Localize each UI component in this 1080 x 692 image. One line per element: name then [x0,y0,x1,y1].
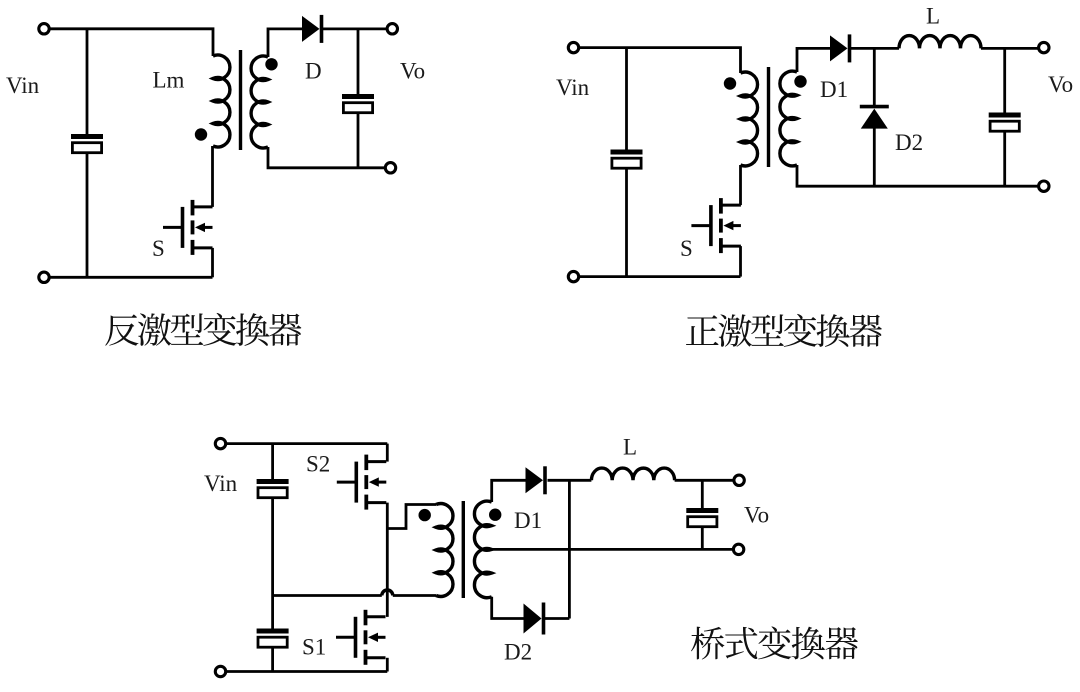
svg-text:D1: D1 [820,77,848,102]
wire input-cap branch lower [86,154,89,278]
wire output-cap branch upper flyback [357,29,360,95]
wire secondary bottom rail flyback [268,147,391,168]
diode D2 forward [860,107,889,129]
polarity dot primary T2 [724,77,736,89]
mosfet S flyback [163,200,213,255]
mosfet S2 [337,455,387,510]
wire switch node to primary top [387,505,436,529]
svg-text:S: S [680,236,693,261]
wire bottom rail bridge [221,670,388,673]
wire secondary bottom rail forward [797,165,1044,186]
transformer T1 primary winding Lm [213,55,230,147]
wire secondary bottom to D2 bridge [492,597,524,619]
svg-text:D: D [305,59,322,84]
wire output-cap branch upper forward [1003,48,1006,113]
wire middle bus left [273,594,382,597]
wire bottom rail flyback [44,276,213,279]
wire D2 branch upper [873,48,876,105]
svg-text:L: L [926,4,940,29]
svg-text:D1: D1 [514,508,542,533]
transformer T2 primary winding [741,72,758,166]
inductor L forward [899,36,981,49]
caption bridge converter [691,626,858,659]
svg-text:S1: S1 [302,635,326,660]
terminal output minus forward [1039,181,1049,191]
wire D2 cathode to join [544,617,570,620]
wire input-cap branch upper bridge [271,444,274,480]
polarity dot secondary T3 [489,509,501,521]
wire output-cap branch lower forward [1003,131,1006,186]
wire top rail bridge [221,442,388,445]
transformer T3 core [462,501,465,598]
wire input-cap branch upper forward [625,48,628,151]
wire D1 cathode to L [850,47,900,50]
capacitor C1 bridge [257,629,289,648]
capacitor Co forward [989,113,1021,132]
wire cap midpoint bridge [271,498,274,630]
svg-text:D2: D2 [895,130,923,155]
terminal input plus flyback [39,24,49,34]
wire input-cap branch lower forward [625,169,628,277]
polarity dot primary T3 [419,509,431,521]
svg-text:Vo: Vo [400,59,425,84]
wire middle bus hop [382,590,393,596]
svg-text:S2: S2 [306,452,330,477]
svg-text:S: S [152,236,165,261]
terminal output plus bridge [734,475,744,485]
capacitor Cin flyback [71,134,103,153]
wire source of S forward [739,246,742,277]
wire top rail flyback [44,29,213,56]
wire D2 branch lower [873,128,876,186]
polarity dot secondary T2 [794,75,806,87]
transformer T2 secondary winding [780,71,797,166]
terminal input plus forward [568,42,578,52]
transformer T1 core [239,50,242,150]
wire switch node vertical [386,503,389,617]
svg-text:Vo: Vo [1048,72,1073,97]
wire center tap rail [492,548,739,551]
mosfet S1 [336,610,386,665]
capacitor Co flyback [342,94,374,113]
wire D1 cathode to L bridge [548,479,592,482]
svg-text:Lm: Lm [153,68,185,93]
diode D [302,15,322,43]
terminal output minus flyback [385,163,395,173]
wire middle bus right [393,594,436,597]
terminal input minus flyback [39,272,49,282]
terminal output plus flyback [387,24,397,34]
polarity dot primary T1 [195,128,207,140]
transformer T3 secondary winding [474,501,491,597]
caption flyback converter [105,313,301,346]
wire secondary top to D1 bridge [492,480,526,502]
wire drain of S forward [739,165,742,205]
transformer T3 primary winding [436,504,453,597]
wire top rail forward [574,48,741,73]
wire source of S [211,248,214,277]
mosfet S forward [691,198,741,253]
terminal output plus forward [1039,42,1049,52]
wire secondary top to diode D [268,29,302,57]
wire S1 source vertical [386,658,389,672]
terminal output minus bridge [733,544,743,554]
capacitor C2 bridge [257,479,289,498]
svg-text:D2: D2 [504,640,532,665]
wire output-cap branch lower flyback [357,113,360,168]
wire L to output terminal forward [981,47,1044,50]
wire diode join vertical [568,480,571,618]
terminal input plus bridge [215,438,225,448]
diode D1 forward [830,34,850,62]
transformer T1 secondary winding [251,56,268,148]
svg-text:L: L [623,435,637,460]
wire output-cap branch upper bridge [701,480,704,509]
wire secondary top to diode D1 forward [797,48,830,72]
inductor L bridge [591,468,674,480]
wire bottom rail forward [574,275,741,278]
transformer T2 core [767,67,770,167]
polarity dot secondary T1 [265,58,277,70]
terminal input minus forward [568,271,578,281]
wire input-cap branch lower bridge [271,647,274,671]
svg-text:Vin: Vin [556,75,590,100]
wire output-cap branch lower bridge [701,527,704,550]
wire S2 drain vertical [386,444,389,462]
capacitor Cin forward [611,150,643,169]
wire drain of S [211,146,214,207]
capacitor Co bridge [686,508,718,527]
caption forward converter [686,314,882,347]
wire input-cap branch upper [86,29,89,135]
svg-text:Vo: Vo [744,503,769,528]
diode D2 bridge [524,603,544,635]
diode D1 bridge [526,466,546,494]
wire L to output bridge [675,479,740,482]
wire diode D cathode to output [322,27,393,30]
svg-text:Vin: Vin [6,73,40,98]
terminal input minus bridge [215,666,225,676]
svg-text:Vin: Vin [204,471,238,496]
